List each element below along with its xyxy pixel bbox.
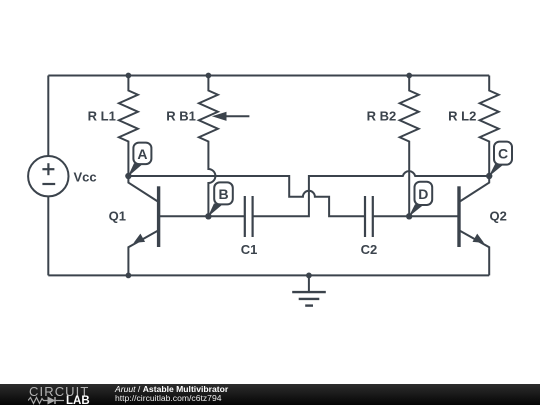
node A dot: [125, 173, 131, 179]
wire net C cross-coupling to C1: [253, 171, 490, 216]
svg-text:C2: C2: [361, 242, 378, 257]
node B label box: [214, 182, 233, 204]
transistor Q2 base bar: [457, 186, 460, 247]
node C dot: [486, 173, 492, 179]
svg-text:Vcc: Vcc: [74, 169, 97, 184]
node B pointer tail: [208, 203, 222, 216]
footer title line: [115, 385, 228, 394]
svg-text:LAB: LAB: [66, 395, 90, 405]
footer bar: [0, 384, 540, 405]
wire Vcc bottom: [47, 196, 49, 275]
svg-text:C: C: [498, 146, 508, 162]
svg-text:R L1: R L1: [88, 109, 116, 124]
svg-text:B: B: [218, 186, 228, 202]
junction dot ground tap: [306, 273, 312, 279]
transistor Q1 collector: [128, 176, 158, 202]
ground bar 2: [299, 298, 320, 300]
junction dot Q1 emitter at rail: [125, 273, 131, 279]
capacitor C2: [365, 196, 373, 237]
junction dot top rail RL1: [125, 73, 131, 79]
node A label box: [133, 143, 151, 165]
svg-text:A: A: [137, 146, 147, 162]
voltage source minus sign: [42, 183, 55, 185]
transistor Q1 base bar: [157, 186, 160, 247]
transistor Q2 emitter arrowhead: [473, 234, 485, 243]
resistor RB1: [199, 76, 218, 217]
logo resistor zigzag: [28, 398, 48, 404]
node D label box: [415, 182, 433, 205]
wire Vcc to top rail: [47, 76, 49, 157]
node C label box: [494, 142, 512, 165]
node B dot: [205, 213, 211, 219]
transistor Q1 emitter: [128, 230, 158, 275]
wire bottom rail: [48, 274, 489, 276]
svg-text:R L2: R L2: [448, 109, 476, 124]
ground bar 3: [305, 304, 313, 306]
wire net A cross-coupling to C2: [128, 176, 365, 216]
transistor Q2 collector: [459, 176, 489, 202]
wire node B to C1: [208, 215, 244, 217]
resistor RB1 wiper arrow line: [226, 115, 249, 117]
wire C2 to node D: [373, 215, 409, 217]
node D pointer tail: [409, 204, 423, 217]
wire top rail: [48, 75, 489, 77]
svg-text:D: D: [418, 186, 428, 202]
svg-text:R B2: R B2: [367, 109, 397, 124]
transistor Q2 base wire: [409, 215, 459, 217]
voltage source V1 circle: [28, 156, 68, 196]
transistor Q1 base wire: [159, 215, 209, 217]
voltage source plus sign: [42, 163, 54, 175]
resistor RL2: [480, 76, 499, 177]
svg-text:C1: C1: [241, 242, 258, 257]
footer url line: [115, 394, 222, 403]
resistor RB2: [400, 76, 419, 217]
transistor Q2 emitter: [459, 230, 489, 275]
node A pointer tail: [128, 163, 142, 177]
svg-text:Q1: Q1: [109, 209, 126, 224]
svg-text:Q2: Q2: [490, 209, 507, 224]
node D dot: [406, 213, 412, 219]
junction dot top rail RB1: [206, 73, 212, 79]
ground stem: [308, 275, 310, 292]
capacitor C1: [245, 196, 253, 237]
transistor Q1 emitter arrowhead: [134, 234, 146, 243]
resistor RB1 wiper arrowhead: [212, 112, 227, 121]
svg-text:R B1: R B1: [166, 109, 196, 124]
node C pointer tail: [489, 164, 503, 177]
resistor RL1: [119, 76, 138, 177]
logo diode: [48, 397, 56, 405]
ground bar 1: [292, 291, 326, 293]
junction dot top rail RB2: [406, 73, 412, 79]
